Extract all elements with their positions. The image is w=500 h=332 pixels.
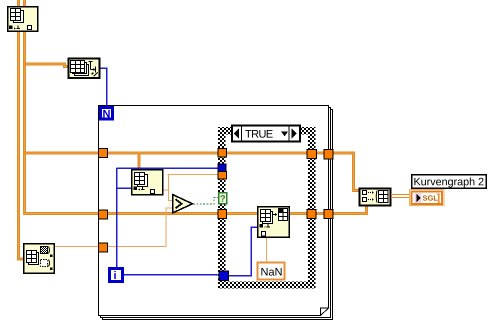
wire scalar from lower index array: [54, 208, 172, 247]
array size node: [69, 59, 100, 79]
index array node in loop: [132, 170, 163, 195]
tunnel loop left 3: [99, 243, 108, 252]
wire blue array size to N: [100, 68, 107, 106]
wire scalar NaN to replace node: [266, 237, 268, 262]
for loop frame back2: [103, 110, 333, 320]
tunnel loop right 2: [324, 210, 333, 219]
wire 2D array to graph terminal: [391, 195, 411, 198]
case selector terminal ?: [219, 193, 227, 204]
tunnel case right 2: [307, 210, 316, 219]
for loop fold flap: [321, 308, 329, 316]
tunnel case left orange 2: [218, 172, 227, 180]
replace array subset node: [258, 207, 290, 238]
tunnel loop left 2: [99, 210, 108, 219]
comparator greater-than: [173, 195, 193, 214]
tunnel case left orange 1: [218, 149, 227, 158]
index array node bottom-left: [24, 244, 55, 274]
case structure hatched border: [218, 127, 316, 289]
wire 2 out of replace node: [289, 205, 367, 214]
NaN constant: [258, 263, 285, 280]
graph indicator terminal SGL: [410, 190, 445, 206]
for loop frame front with page fold: [99, 106, 329, 316]
wire blue i to case bottom tunnel: [124, 274, 219, 276]
label Kurvengraph 2: [412, 175, 487, 189]
wire 2D array left vertical: [17, 0, 23, 259]
tunnel case right 1: [307, 150, 317, 159]
tunnel loop left 1: [99, 149, 108, 158]
wire 1 branch into index array node: [138, 153, 141, 169]
tunnel case left blue bottom: [219, 271, 229, 281]
case selector label: [232, 126, 300, 142]
tunnel case left blue: [218, 164, 226, 172]
wire blue inside case: [228, 227, 258, 276]
i terminal: [108, 267, 124, 283]
wire to array size: [23, 64, 68, 67]
N terminal: [99, 106, 114, 121]
tunnel loop right 1: [324, 150, 333, 160]
wire scalar index node output: [163, 175, 218, 201]
build array node: [360, 189, 391, 206]
case structure interior: [226, 135, 309, 282]
wire blue i up and to case: [117, 168, 219, 267]
array terminal icon top-left: [8, 7, 38, 32]
wire 2 array lower run: [23, 212, 258, 215]
for loop frame back1: [101, 108, 331, 318]
wire 1 array to loop and build array: [23, 153, 359, 191]
tunnel case left orange 3: [218, 210, 227, 219]
wire 2D array right vertical: [23, 0, 26, 214]
wire boolean dashed to case selector: [193, 198, 219, 205]
